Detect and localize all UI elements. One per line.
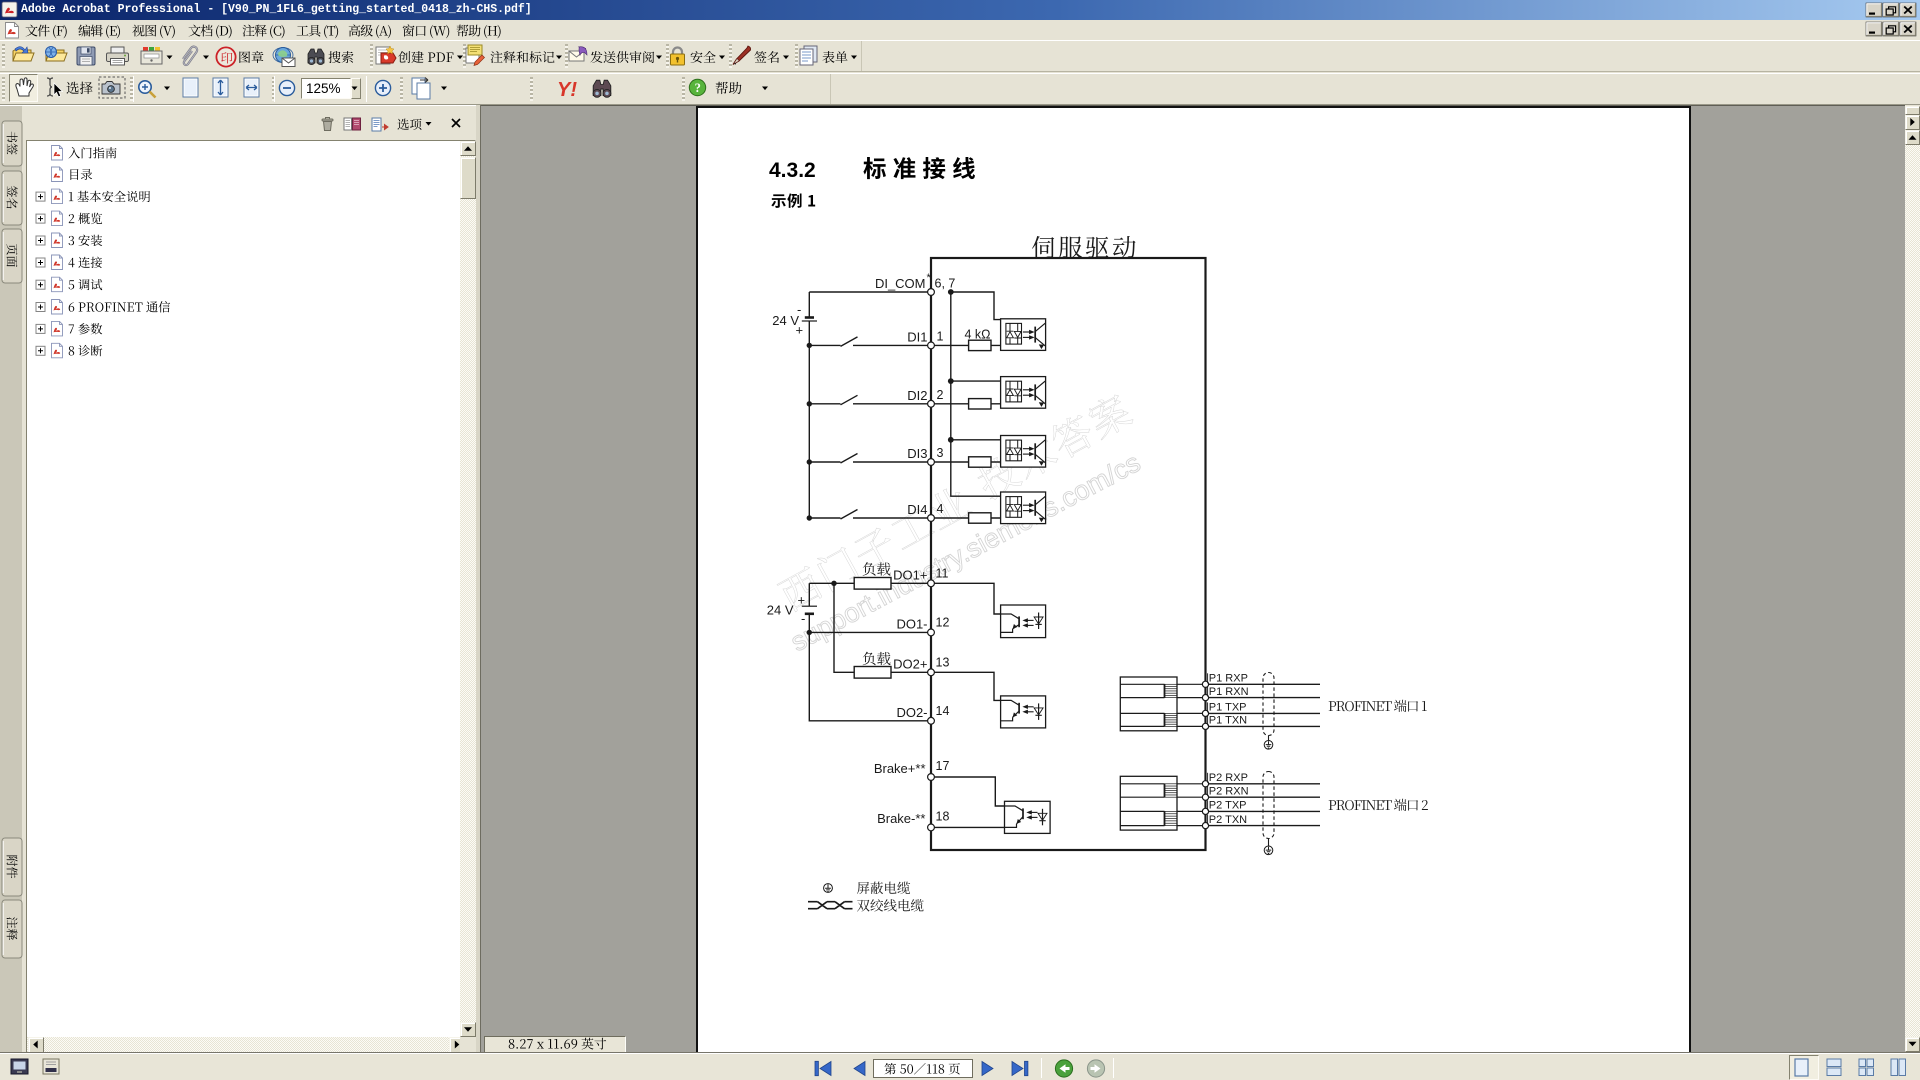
pin 4 on enclosure: [928, 515, 935, 522]
pin 3 on enclosure: [928, 459, 935, 466]
junction dot at pin 6,7: [948, 289, 954, 295]
optocoupler U7 (brake) (output): [1005, 801, 1051, 833]
pin node P2 TXN on enclosure: [1202, 823, 1208, 829]
pin node P1 TXP on enclosure: [1202, 710, 1208, 716]
pin node P1 RXN on enclosure: [1202, 695, 1208, 701]
load resistor RL2: [854, 667, 891, 679]
optocoupler U1 (input DI1): [1001, 319, 1046, 351]
resistor R4 4k (input limiter DI4): [969, 513, 991, 523]
switch S3 (digital input DI3): [809, 454, 931, 464]
switch S4 (digital input DI4): [809, 510, 931, 520]
cable shield drain wire port 2: [1268, 839, 1270, 847]
wire P1 RXN to twisted pair: [1206, 697, 1321, 699]
wire 24V bus for DI switches: [808, 345, 810, 518]
wire P2 TXP to twisted pair: [1206, 810, 1321, 812]
wire 24V- bus to DO1- and DO2-: [809, 632, 931, 720]
pin node P1 RXP on enclosure: [1202, 681, 1208, 687]
pin 6,7 on enclosure: [928, 289, 935, 296]
24V battery B1: [802, 292, 817, 345]
load resistor RL1: [854, 578, 891, 590]
pin node P2 RXN on enclosure: [1202, 794, 1208, 800]
pin node P1 TXN on enclosure: [1202, 723, 1208, 729]
pin 18 on enclosure: [928, 824, 935, 831]
legend ground symbol (shielded cable): [824, 884, 833, 893]
wire P1 TXN to twisted pair: [1206, 725, 1321, 727]
wire P2 RXN to twisted pair: [1206, 796, 1321, 798]
pin 11 on enclosure: [928, 580, 935, 587]
wire DI_COM bus to optocoupler U3: [951, 439, 1001, 441]
inner DI_COM bus from pin 6,7: [951, 292, 1001, 496]
pin 14 on enclosure: [928, 717, 935, 724]
wire Brake+ pin 17 into optocoupler U7: [931, 777, 1005, 806]
wire DI1 pin to optocoupler U1: [931, 344, 1010, 345]
wire DI_COM to optocoupler U1: [951, 292, 1001, 320]
resistor R3 4k (input limiter DI3): [969, 457, 991, 467]
ground (cable shield) port 1: [1264, 741, 1273, 750]
twisted pair cable symbol port 2: [1263, 772, 1274, 839]
junction node on 24V bus at DI1: [807, 343, 812, 348]
wire DO1- pin: [809, 631, 931, 633]
optocoupler U5 (DO1) (output): [1001, 605, 1046, 638]
pin 1 on enclosure: [928, 342, 935, 349]
optocoupler U4 (input DI4): [1001, 492, 1046, 524]
ground (cable shield) port 2: [1264, 846, 1273, 855]
wire P2 RXP to twisted pair: [1206, 783, 1321, 785]
optocoupler U2 (input DI2): [1001, 377, 1046, 409]
cable shield drain wire port 1: [1268, 736, 1270, 741]
wire Brake- pin 18 into optocoupler U7: [931, 826, 1005, 828]
pin node P2 RXP on enclosure: [1202, 781, 1208, 787]
PROFINET connector X2 (port 2): [1120, 776, 1205, 830]
wire P1 RXP to twisted pair: [1206, 683, 1321, 685]
twisted pair cable symbol port 1: [1263, 673, 1274, 736]
servo drive enclosure box: [931, 258, 1206, 850]
wire branch to DO2+: [834, 583, 854, 672]
switch S2 (digital input DI2): [809, 395, 931, 405]
wire DO1+ load line: [809, 582, 931, 584]
optocoupler U6 (DO2) (output): [1001, 696, 1046, 728]
junction node at DO1-: [807, 630, 812, 635]
switch S1 (digital input DI1): [809, 337, 931, 347]
wire DI2 pin to optocoupler U2: [931, 402, 1010, 404]
junction node DO1+/DO2+ branch: [831, 581, 836, 586]
wire P1 TXP to twisted pair: [1206, 712, 1321, 714]
junction node on 24V bus at DI4: [807, 515, 812, 520]
wire DO1+ pin 11 into optocoupler U5: [931, 583, 1001, 614]
wire DI3 pin to optocoupler U3: [931, 461, 1010, 462]
wire DO2+ pin 13 into optocoupler U6: [931, 672, 1001, 700]
wire DI_COM from 24V bus to pin 6,7: [809, 291, 931, 293]
wire DI_COM bus to optocoupler U2: [951, 380, 1001, 382]
pin 13 on enclosure: [928, 669, 935, 676]
junction dot DI_COM bus to U2: [948, 378, 954, 384]
pin 17 on enclosure: [928, 774, 935, 781]
legend twisted pair symbol: [808, 902, 853, 909]
resistor R2 4k (input limiter DI2): [969, 399, 991, 409]
wire P2 TXN to twisted pair: [1206, 825, 1321, 827]
pin 2 on enclosure: [928, 400, 935, 407]
wire DI4 pin to optocoupler U4: [931, 516, 1010, 519]
optocoupler U3 (input DI3): [1001, 436, 1046, 468]
24V battery B2 (output supply): [802, 583, 817, 632]
wire DO2+ to pin 13: [891, 671, 931, 673]
pin 12 on enclosure: [928, 629, 935, 636]
PROFINET connector X1 (port 1): [1120, 677, 1205, 731]
resistor R1 4k (input limiter DI1): [969, 340, 991, 350]
junction node on 24V bus at DI2: [807, 401, 812, 406]
junction dot DI_COM bus to U3: [948, 437, 954, 443]
pin node P2 TXP on enclosure: [1202, 808, 1208, 814]
junction node on 24V bus at DI3: [807, 459, 812, 464]
